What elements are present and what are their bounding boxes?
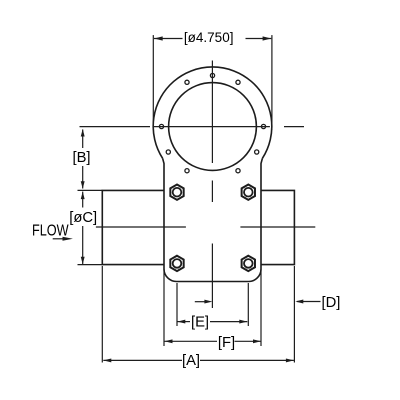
svg-text:[øC]: [øC] xyxy=(69,210,97,226)
bolt hole 90deg xyxy=(210,73,214,77)
dim A line xyxy=(103,359,294,361)
flange outer arc xyxy=(153,67,272,158)
dim F line xyxy=(165,340,262,342)
right pipe xyxy=(261,190,294,264)
flange inner bore circle xyxy=(169,83,257,171)
dim E arrows xyxy=(177,320,247,324)
pipe horizontal centerline xyxy=(96,226,315,228)
body edge extension lines xyxy=(164,269,261,346)
hex bolt top-right xyxy=(242,185,255,200)
vertical centerline xyxy=(211,61,213,309)
bolt hole 240deg xyxy=(185,169,189,173)
svg-text:[ø4.750]: [ø4.750] xyxy=(184,30,234,45)
bolt hole 0deg xyxy=(261,124,265,128)
svg-text:[F]: [F] xyxy=(218,335,235,351)
dim E line xyxy=(177,321,247,323)
svg-text:[A]: [A] xyxy=(182,353,200,369)
horizontal flange centerline xyxy=(80,126,305,128)
dim B line xyxy=(82,130,84,189)
hex bolt bottom-left xyxy=(170,256,183,271)
dim C arrows xyxy=(81,192,85,265)
bolt hole 300deg xyxy=(236,169,240,173)
dim B arrows xyxy=(81,129,85,189)
center tick arrow xyxy=(195,301,205,303)
dim C line xyxy=(82,192,84,265)
bolt hole 120deg xyxy=(185,80,189,84)
dim F arrows xyxy=(165,339,262,343)
bolt hole 60deg xyxy=(236,80,240,84)
hex bolt bottom-right xyxy=(242,256,255,271)
dim ø4.750 arrows xyxy=(154,36,271,40)
dim A arrows xyxy=(103,358,294,362)
bolt hole 210deg xyxy=(166,150,170,154)
left pipe xyxy=(102,190,164,264)
svg-text:[D]: [D] xyxy=(322,295,341,311)
svg-text:[E]: [E] xyxy=(191,315,209,331)
bolt center extension lines xyxy=(177,283,248,326)
dim D leader arrow xyxy=(297,301,321,303)
pipe end extension lines xyxy=(102,266,294,363)
valve body outline xyxy=(163,158,263,281)
svg-text:[B]: [B] xyxy=(72,150,90,166)
pipe bottom extension line xyxy=(78,264,103,266)
pipe top extension line xyxy=(78,189,103,191)
dim ø4.750 extension lines xyxy=(153,35,272,130)
bolt hole 180deg xyxy=(159,124,163,128)
dim ø4.750 line xyxy=(154,38,271,40)
hex bolt top-left xyxy=(170,185,183,200)
bolt hole 330deg xyxy=(255,150,259,154)
FLOW arrow xyxy=(53,238,65,240)
